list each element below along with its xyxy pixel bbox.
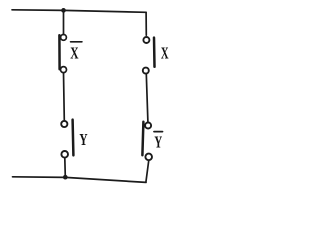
- svg-text:Y: Y: [79, 130, 87, 149]
- svg-text:X: X: [70, 43, 78, 62]
- svg-text:Y: Y: [154, 133, 162, 152]
- svg-text:X: X: [161, 44, 169, 63]
